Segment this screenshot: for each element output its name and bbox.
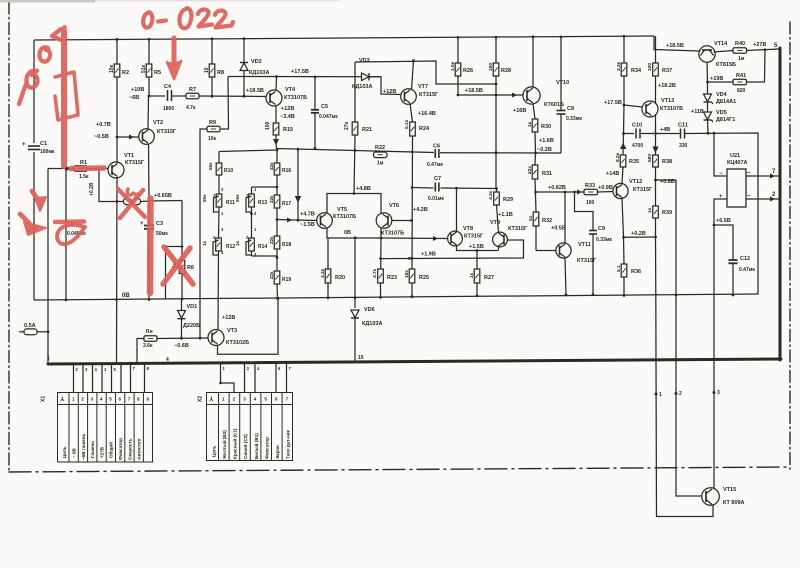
transistor VT9 xyxy=(493,232,508,247)
svg-text:R36: R36 xyxy=(631,269,641,275)
transistor VT10 xyxy=(523,87,540,104)
svg-text:100: 100 xyxy=(265,121,271,130)
svg-text:22к: 22к xyxy=(269,195,274,203)
svg-text:~6В гашень: ~6В гашень xyxy=(81,434,86,460)
node labels +10V ~6V xyxy=(129,87,144,101)
wire R39 down to bus and below xyxy=(655,237,657,295)
red annotation: down arrow near C4 xyxy=(167,38,181,79)
svg-text:КТ3102Б: КТ3102Б xyxy=(226,340,249,346)
wire VT7 collector xyxy=(412,61,414,90)
frame: left dash-dot border xyxy=(8,2,10,470)
red annotation: handwritten 0-022 xyxy=(143,8,233,28)
svg-text:C12: C12 xyxy=(740,256,750,262)
trimmer bracket R14 xyxy=(246,240,252,255)
svg-text:VT5: VT5 xyxy=(337,207,347,213)
svg-text:Гашень: Гашень xyxy=(90,441,95,458)
transistor VT11 xyxy=(549,243,572,258)
resistor R10 xyxy=(216,163,222,175)
resistor R30 xyxy=(532,119,538,153)
wire VT3 emitter loop to bus xyxy=(218,298,279,354)
red annotation: strike bar over C2 label xyxy=(55,219,84,224)
frame: bottom dash-dot border xyxy=(9,467,789,472)
divider network top wire xyxy=(219,150,277,152)
wire: +4.8V collector rail VT5-VT6 xyxy=(327,194,381,214)
connector X1 pin stubs xyxy=(74,364,145,392)
wire U21 plus input xyxy=(714,199,727,295)
svg-text:+0.2В: +0.2В xyxy=(89,182,95,196)
svg-text:C11: C11 xyxy=(678,123,688,129)
svg-text:R7: R7 xyxy=(189,87,196,93)
wire: x676 column below to VT15 base xyxy=(676,295,701,496)
svg-text:VD6: VD6 xyxy=(364,307,375,313)
svg-text:51к: 51к xyxy=(141,64,147,73)
svg-text:18к: 18к xyxy=(404,270,410,278)
svg-text:+1.9В: +1.9В xyxy=(421,252,436,258)
svg-text:R10: R10 xyxy=(224,168,233,174)
resistor R35 xyxy=(620,155,626,184)
svg-text:22к: 22к xyxy=(269,236,274,244)
svg-text:C5: C5 xyxy=(321,104,328,110)
wire VT8 base with arrow xyxy=(381,236,448,241)
divider left column with R10 R11 R12 xyxy=(216,152,222,331)
svg-text:R28: R28 xyxy=(501,68,511,74)
red annotation: stroke over R1 xyxy=(71,165,104,171)
resistor R22 xyxy=(374,152,388,158)
resistor R36 xyxy=(621,237,627,295)
svg-text:R2: R2 xyxy=(122,70,129,76)
svg-text:R34: R34 xyxy=(631,68,642,74)
wire VT11 emitter to bus xyxy=(565,258,566,295)
wire: C2 to C3 node and on to x182 xyxy=(149,200,182,203)
wire VT13 base from R34 column xyxy=(624,105,642,107)
svg-text:VT9: VT9 xyxy=(490,220,500,226)
svg-text:C4: C4 xyxy=(164,84,172,90)
diode VD4 (zener) xyxy=(704,82,714,104)
svg-text:Автостоп: Автостоп xyxy=(137,438,142,460)
svg-text:820: 820 xyxy=(737,88,746,94)
svg-text:+0.7В: +0.7В xyxy=(96,122,111,128)
svg-text:+0.2В: +0.2В xyxy=(631,231,646,237)
svg-text:+10В: +10В xyxy=(131,87,144,93)
svg-text:Д220Б: Д220Б xyxy=(183,323,200,329)
red annotation: X over C2 xyxy=(118,189,145,218)
svg-text:R33: R33 xyxy=(585,183,595,189)
wire continue rail to C11 xyxy=(656,133,680,135)
X1 column texts rotated xyxy=(62,434,142,460)
resistor R6 (crossed out) xyxy=(179,247,185,300)
capacitor C10 xyxy=(636,129,640,139)
svg-text:+4.7В: +4.7В xyxy=(300,212,315,218)
node pin 3 xyxy=(713,391,716,394)
svg-text:⅄: ⅄ xyxy=(209,396,214,403)
connector X2 pin stubs xyxy=(221,363,287,392)
scanner smudge top left xyxy=(0,0,95,3)
wire: R33 feed with arrow xyxy=(536,190,584,195)
transistor VT12 xyxy=(613,183,628,198)
resistor R5 xyxy=(146,38,152,96)
svg-text:VT14: VT14 xyxy=(714,41,728,47)
resistor R28 xyxy=(493,37,499,189)
resistor R8 xyxy=(209,38,215,96)
resistor R34 xyxy=(621,36,627,105)
svg-text:+4.2В: +4.2В xyxy=(413,207,428,213)
capacitor C9 xyxy=(575,192,598,295)
capacitor C12 xyxy=(714,225,738,295)
wire: top link over VT7 xyxy=(355,61,496,84)
svg-text:VD3: VD3 xyxy=(359,58,370,64)
svg-text:R22: R22 xyxy=(375,145,385,151)
svg-text:R32: R32 xyxy=(542,218,552,224)
wire VT8 collector up xyxy=(456,188,458,231)
frame: bold right border of schematic xyxy=(779,48,782,360)
svg-text:0.01мк: 0.01мк xyxy=(428,196,444,202)
svg-text:U21: U21 xyxy=(730,153,740,159)
svg-text:КТ3107Б: КТ3107Б xyxy=(333,214,356,220)
label node 4 xyxy=(47,356,50,362)
node + label of C1 xyxy=(22,141,55,155)
svg-text:VT15: VT15 xyxy=(723,487,736,493)
svg-text:3: 3 xyxy=(717,390,720,396)
node labels +0.7V ~0.5V xyxy=(94,122,111,140)
resistor R32 xyxy=(533,212,539,251)
svg-text:R12: R12 xyxy=(226,244,235,250)
svg-text:+17.5В: +17.5В xyxy=(291,69,309,75)
capacitor C6 in coupling rail xyxy=(435,149,439,158)
svg-text:+27В: +27В xyxy=(753,42,766,48)
svg-text:R11: R11 xyxy=(226,200,235,206)
svg-text:VT11: VT11 xyxy=(578,242,591,248)
svg-text:C6: C6 xyxy=(433,144,440,150)
svg-text:VD2: VD2 xyxy=(251,59,262,65)
resistor R25 xyxy=(409,269,415,297)
svg-text:Синий (С2): Синий (С2) xyxy=(242,434,248,459)
resistor R15 xyxy=(273,123,279,150)
svg-text:8.2к: 8.2к xyxy=(615,152,621,162)
svg-text:+0.5В: +0.5В xyxy=(551,226,566,232)
svg-text:~0.2В: ~0.2В xyxy=(537,147,552,153)
node: bus junction R5 xyxy=(148,38,151,41)
fuse 0.5A xyxy=(19,329,48,335)
wire to VT11 base xyxy=(536,250,549,252)
svg-text:+1.6В: +1.6В xyxy=(539,138,554,144)
svg-text:R21: R21 xyxy=(362,127,372,133)
svg-text:+0.9В: +0.9В xyxy=(598,185,613,191)
resistor R24 xyxy=(410,122,416,269)
svg-text:10к: 10к xyxy=(109,64,115,73)
svg-text:~6В: ~6В xyxy=(129,95,139,101)
X1 label xyxy=(41,396,47,402)
wire VT2 emitter down to C3 node xyxy=(148,144,151,201)
svg-text:10: 10 xyxy=(358,355,364,361)
svg-text:X2: X2 xyxy=(198,396,204,402)
svg-text:R13: R13 xyxy=(258,200,267,206)
svg-text:Цепь: Цепь xyxy=(62,446,67,458)
resistor R37 xyxy=(653,36,659,134)
svg-text:VD1: VD1 xyxy=(187,304,198,310)
wire: branch x165.5 xyxy=(166,247,183,300)
red annotation: scribble loop over C2 label xyxy=(57,225,85,244)
svg-text:0.47мк: 0.47мк xyxy=(427,162,443,168)
wire VT6 base to x411 column xyxy=(392,220,412,222)
wire C4 to R7 xyxy=(172,95,187,97)
divider middle column R13 R14 xyxy=(249,187,255,256)
svg-text:5.1к: 5.1к xyxy=(404,119,410,129)
node: bus junction R2 xyxy=(116,38,119,41)
wire: 0V bottom bus xyxy=(34,294,758,300)
svg-text:Красный (С1): Красный (С1) xyxy=(232,428,238,459)
wire: base node down xyxy=(99,169,117,202)
wire VT1 emitter down to 0V bus and bold border xyxy=(116,177,119,364)
svg-text:Цепь: Цепь xyxy=(212,445,217,457)
connector X2 table xyxy=(207,393,293,461)
resistor R1 xyxy=(48,166,108,172)
capacitor C3 xyxy=(144,201,154,300)
wire rail from C11 to right bend xyxy=(685,133,759,295)
divider right column R16 R17 R18 R19 xyxy=(274,150,280,299)
capacitor C5 xyxy=(311,77,319,149)
resistor R27 xyxy=(474,251,480,296)
resistor R41 xyxy=(708,50,766,85)
capacitor C2 (crossed out) xyxy=(117,198,149,205)
svg-text:4.7к: 4.7к xyxy=(186,105,196,111)
wire VT4 collector to +17.5V wire xyxy=(275,77,278,92)
svg-text:+16.4В: +16.4В xyxy=(418,111,436,117)
svg-text:0.33мк: 0.33мк xyxy=(596,237,612,243)
svg-text:R35: R35 xyxy=(629,159,639,165)
red annotation: big X over R6 xyxy=(163,247,193,284)
wire VT1 collector up xyxy=(116,137,118,163)
red annotation: double arrows pointing down-right xyxy=(20,191,46,235)
svg-text:VT13: VT13 xyxy=(661,98,674,104)
svg-text:4.3к: 4.3к xyxy=(320,268,326,278)
resistor R39 xyxy=(653,206,659,237)
svg-text:+18.5В: +18.5В xyxy=(246,88,264,94)
red annotation: trapezoid box xyxy=(55,72,78,120)
svg-text:R19: R19 xyxy=(282,277,291,283)
svg-text:R31: R31 xyxy=(542,171,552,177)
transistor VT15 xyxy=(702,488,720,506)
svg-text:100: 100 xyxy=(586,200,595,206)
svg-text:22к: 22к xyxy=(269,271,274,279)
svg-text:+19В: +19В xyxy=(710,76,723,82)
resistor R11 xyxy=(216,194,222,207)
diode VD6 xyxy=(351,310,359,363)
red annotation: thick vertical stroke left xyxy=(61,31,67,166)
svg-text:+18.2В: +18.2В xyxy=(658,83,676,89)
node pin 2 xyxy=(675,392,678,395)
wire: x66 column xyxy=(65,169,67,301)
node dot base feed xyxy=(116,200,119,203)
svg-text:1к: 1к xyxy=(469,272,475,278)
svg-text:4: 4 xyxy=(166,357,169,363)
svg-text:R37: R37 xyxy=(662,68,672,74)
svg-text:5.1: 5.1 xyxy=(616,265,622,272)
wire R33 to VT12 base xyxy=(598,191,615,194)
trimmer bracket R12 xyxy=(213,240,219,255)
svg-text:VT8: VT8 xyxy=(463,226,473,232)
resistor R2 xyxy=(114,38,120,137)
svg-text:1м: 1м xyxy=(738,56,745,62)
connector X1 table xyxy=(58,393,153,463)
X2 label xyxy=(198,396,204,402)
wire U21 ac out 2 xyxy=(746,197,780,202)
svg-text:R39: R39 xyxy=(662,210,672,216)
svg-text:Белый (В1): Белый (В1) xyxy=(253,433,259,459)
svg-text:+1.5В: +1.5В xyxy=(469,244,484,250)
transistor VT6 xyxy=(376,213,392,229)
transistor VT7 xyxy=(401,89,417,105)
svg-text:22к: 22к xyxy=(527,166,533,174)
svg-text:1к: 1к xyxy=(527,121,533,127)
svg-text:R20: R20 xyxy=(335,275,345,281)
svg-text:R15: R15 xyxy=(283,127,293,133)
wire VT12 emitter down xyxy=(622,198,624,237)
svg-text:Фиксатор: Фиксатор xyxy=(118,438,123,460)
wire: x656 column below bus to VT15 xyxy=(656,295,713,516)
svg-text:КЦ407А: КЦ407А xyxy=(727,160,748,166)
svg-text:+11В: +11В xyxy=(691,109,704,115)
svg-text:R16: R16 xyxy=(282,168,291,174)
transistor VT4 xyxy=(266,90,282,106)
svg-text:−0.6В: −0.6В xyxy=(174,343,189,349)
svg-text:Скорость: Скорость xyxy=(127,438,132,460)
svg-text:C9: C9 xyxy=(598,226,605,232)
svg-text:VT7: VT7 xyxy=(418,84,428,90)
wire: top supply bus xyxy=(34,36,654,40)
resistor R31 xyxy=(532,153,538,212)
svg-text:150: 150 xyxy=(488,63,494,71)
wire VT11 collector up to R33 wire xyxy=(564,192,566,244)
wire with up arrow to R35 xyxy=(620,134,626,156)
svg-text:VT3: VT3 xyxy=(227,328,237,334)
capacitor C4 xyxy=(168,90,172,101)
svg-text:1м: 1м xyxy=(377,161,384,167)
svg-text:VT10: VT10 xyxy=(556,80,569,86)
svg-text:КТ 809А: КТ 809А xyxy=(723,500,745,506)
svg-text:4700: 4700 xyxy=(632,143,643,149)
wire VT2 base from VT1 collector column with arrow xyxy=(117,135,139,140)
wire R37/VT13 emitter column down with arrow to R38 xyxy=(652,134,658,156)
svg-text:Rн: Rн xyxy=(146,329,153,335)
svg-text:C8: C8 xyxy=(567,106,574,112)
resistor R26 xyxy=(455,38,461,96)
svg-text:1.5к: 1.5к xyxy=(450,61,456,71)
trimmer bracket R13 xyxy=(246,196,252,212)
svg-text:3.3к: 3.3к xyxy=(616,61,622,71)
svg-text:+: + xyxy=(719,194,723,200)
svg-text:R1: R1 xyxy=(80,160,87,166)
svg-text:1к: 1к xyxy=(647,207,653,213)
wire +0.8V branch down x676 xyxy=(656,180,677,295)
wire: bus corner down to +18.5V feed xyxy=(654,36,699,51)
resistor R21 xyxy=(352,122,358,194)
resistor R9 xyxy=(207,126,220,132)
svg-text:КТ315Г: КТ315Г xyxy=(157,129,177,135)
capacitor C8 xyxy=(557,37,566,153)
resistor R23 xyxy=(378,269,384,298)
svg-text:55к: 55к xyxy=(202,194,207,202)
svg-text:VT12: VT12 xyxy=(629,179,642,185)
svg-text:330: 330 xyxy=(679,143,688,149)
wire: left rail from bus corner down to 0V bus xyxy=(33,40,35,143)
wire VT9 emitter loop right xyxy=(498,246,500,251)
wire from rail down to VT5 base node with arrow xyxy=(295,149,301,221)
svg-text:0.047мк: 0.047мк xyxy=(319,114,338,120)
svg-text:R30: R30 xyxy=(541,124,551,130)
svg-text:R26: R26 xyxy=(463,68,473,74)
frame: bold bottom border of schematic xyxy=(48,359,781,364)
wire: x714 column below to VT15 collector xyxy=(713,295,715,488)
svg-text:КТ315Г: КТ315Г xyxy=(577,258,597,264)
svg-text:VT4: VT4 xyxy=(285,87,296,93)
svg-text:55к: 55к xyxy=(235,194,240,202)
svg-text:Фиксатор: Фиксатор xyxy=(264,437,269,459)
svg-text:+14В: +14В xyxy=(606,171,619,177)
svg-text:+12В: +12В xyxy=(281,106,294,112)
svg-text:~: ~ xyxy=(747,171,751,177)
svg-text:VT1: VT1 xyxy=(124,153,134,159)
svg-text:+4.8В: +4.8В xyxy=(356,186,371,192)
svg-text:~3.4В: ~3.4В xyxy=(280,114,295,120)
svg-text:КД103А: КД103А xyxy=(362,321,382,327)
wire: R34 column down through C10 rail to VT12 xyxy=(623,105,626,134)
svg-text:4.7к: 4.7к xyxy=(372,268,378,278)
wire U21 minus input xyxy=(714,133,727,176)
svg-text:51: 51 xyxy=(528,215,534,221)
svg-text:1: 1 xyxy=(47,356,50,362)
wire: x48 column xyxy=(47,169,49,364)
X2 column texts rotated xyxy=(212,428,291,460)
wire: +17.5V rail xyxy=(228,76,381,78)
wire: x355 column upper xyxy=(354,62,356,122)
wire: C10/C11 horizontal rail xyxy=(624,133,635,135)
svg-text:Тахо дат-чик: Тахо дат-чик xyxy=(286,429,291,459)
wire: C7 rail xyxy=(412,187,433,190)
transistor VT8 xyxy=(448,231,463,246)
svg-text:R25: R25 xyxy=(419,275,429,281)
svg-text:+0.65В: +0.65В xyxy=(154,193,172,199)
svg-text:C10: C10 xyxy=(632,123,642,129)
svg-text:C1: C1 xyxy=(40,141,47,147)
transistor VT5 xyxy=(317,213,333,229)
wire: down leg x182 to R6 xyxy=(181,201,183,247)
svg-text:R24: R24 xyxy=(419,126,430,132)
wire VT14 emitter down xyxy=(706,63,709,83)
svg-text:0.33мк: 0.33мк xyxy=(566,116,582,122)
svg-text:R8: R8 xyxy=(217,70,224,76)
svg-text:1к: 1к xyxy=(235,240,240,246)
svg-text:C3: C3 xyxy=(156,221,163,227)
svg-text:КД103А: КД103А xyxy=(249,70,269,76)
svg-text:КТ315Г: КТ315Г xyxy=(464,234,484,240)
resistor R7 xyxy=(186,93,199,99)
svg-text:4.3к: 4.3к xyxy=(488,190,494,200)
svg-text:R18: R18 xyxy=(282,242,291,248)
label +0.65V xyxy=(154,193,172,199)
svg-text:+12В: +12В xyxy=(222,315,235,321)
svg-text:3.6к: 3.6к xyxy=(143,343,153,349)
svg-text:27к: 27к xyxy=(344,121,350,130)
svg-text:R27: R27 xyxy=(484,275,494,281)
svg-text:VT6: VT6 xyxy=(389,203,399,209)
svg-text:VD4: VD4 xyxy=(716,92,728,98)
svg-text:Д814Г1: Д814Г1 xyxy=(716,117,735,123)
rectifier U21 box xyxy=(727,169,746,207)
svg-text:R29: R29 xyxy=(503,197,513,203)
node pin 1 xyxy=(655,393,658,396)
svg-text:R23: R23 xyxy=(387,275,397,281)
svg-text:КТ3107Б: КТ3107Б xyxy=(381,231,404,237)
